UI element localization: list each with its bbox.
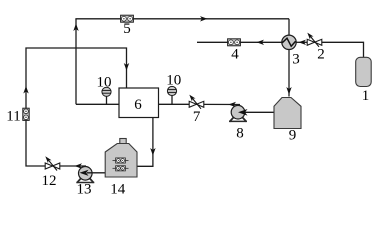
svg-text:8: 8 [236,125,244,141]
meter inside 14 lower [113,167,129,169]
valve 12 [45,156,60,170]
arrow up into meter 11 line [23,86,28,94]
svg-text:2: 2 [317,47,325,63]
svg-text:7: 7 [193,109,201,125]
wire hx 3 left outlet through meter 4 [197,41,282,43]
sensor 10 left [102,87,111,104]
arrow left into pump 8 center [238,109,248,116]
wire loop 11 riser and top run to box 6 top [26,48,127,108]
svg-text:1: 1 [362,88,370,104]
wire vertical drop through heat exchanger into tank 9 [288,19,290,97]
arrow left into pump 13 center [80,170,89,176]
arrow left on pump 13 discharge line [75,163,83,168]
heat exchanger 3 [282,35,296,49]
arrow down into tank 14 corner [150,148,155,156]
wire tank 14 to pump 13 center [87,172,105,174]
svg-text:4: 4 [231,47,239,63]
svg-text:9: 9 [289,128,297,144]
svg-text:3: 3 [292,52,300,68]
valve 2 [307,33,322,47]
wire tank 9 to pump 8 center [240,111,274,113]
flow meter 5 [121,15,134,22]
svg-text:5: 5 [123,21,131,37]
arrow right on top header line [200,16,208,21]
pump 13 [76,167,94,183]
svg-text:6: 6 [134,97,142,113]
arrow up on left riser [73,24,78,32]
arrow left on meter 4 line [257,40,265,45]
valve 7 [189,95,204,109]
wire valve 12 to pump 13 [60,165,86,167]
wire left riser from evaporator pipe to top line [75,19,77,105]
box 6 [119,88,159,118]
tank 1 [356,57,372,86]
wire right pipe from box 6 to valve 7 [159,103,190,105]
wire left pipe into box 6 [76,103,119,105]
svg-text:10: 10 [97,74,112,90]
wire box 6 bottom down and left into tank 14 [137,118,153,167]
svg-text:12: 12 [42,173,57,189]
wire valve 2 to tank 1 [322,42,364,57]
flow meter 4 [228,39,241,46]
pump 8 [229,105,247,121]
svg-text:13: 13 [77,182,92,196]
arrow down into box 6 top [124,63,129,71]
wire valve 7 to pump 8 [204,103,240,105]
meter 11 [23,108,29,120]
svg-text:11: 11 [6,109,20,125]
wire below meter 11 down and right to valve 12 [26,121,45,167]
svg-text:14: 14 [110,182,126,196]
arrow left on pump 8 discharge line [229,102,237,107]
tank 9 [274,98,301,129]
sensor 10 right [167,86,176,104]
wire top header line [75,18,289,20]
tank 14 [105,139,137,178]
wire hx 3 right inlet from valve 2 [296,41,307,43]
svg-text:10: 10 [166,73,181,89]
arrow down into tank 9 [286,87,291,95]
meter inside 14 upper [113,160,129,162]
arrow left into hx 3 right side [299,40,307,45]
